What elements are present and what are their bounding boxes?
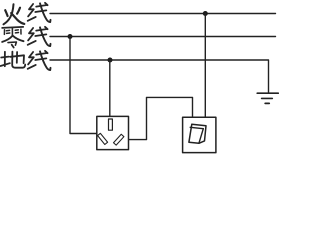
wire neutral (middle horizontal) xyxy=(50,36,276,38)
node on earth wire xyxy=(108,58,113,63)
wire earth to socket top xyxy=(109,60,111,116)
wire live (top horizontal) xyxy=(50,13,276,15)
ground symbol xyxy=(257,93,278,103)
switch S (rocker switch) xyxy=(183,117,216,152)
wire live to switch top xyxy=(204,14,206,118)
wire earth (bottom horizontal, turns down to ground) xyxy=(50,60,269,93)
label 火线 (live wire) xyxy=(4,3,51,25)
wire neutral to socket left xyxy=(70,37,97,134)
node on live wire xyxy=(203,11,208,16)
node on neutral wire xyxy=(68,34,73,39)
label 零线 (neutral wire) xyxy=(2,27,50,48)
wire socket right to switch top (loop) xyxy=(129,97,193,139)
label 地线 (earth wire) xyxy=(1,51,51,70)
socket XS (three-hole outlet) xyxy=(97,116,129,149)
